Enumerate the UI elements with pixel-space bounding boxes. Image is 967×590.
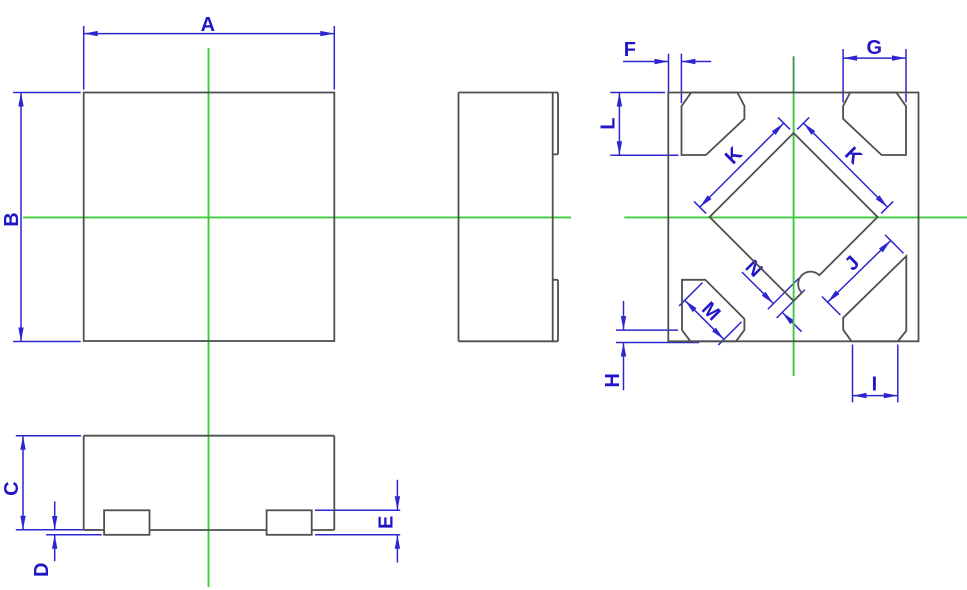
front view bottom edge segment middle (150, 529, 267, 531)
dimension K-right tick lower (881, 201, 893, 213)
dimension I extension line left (852, 345, 854, 403)
front view right edge (333, 436, 335, 530)
dimension L extension line bottom (610, 154, 678, 156)
side view body right edge (552, 93, 554, 342)
dimension E extension line bottom (315, 534, 400, 536)
front view bottom edge segment right (312, 529, 335, 531)
dimension I line (853, 395, 898, 397)
centerline horizontal left views (23, 216, 571, 218)
dimension L line (618, 93, 620, 156)
front view bottom edge segment left (84, 529, 104, 531)
dimension E line lower (396, 535, 398, 563)
svg-text:H: H (602, 373, 624, 387)
bottom view package outline (668, 93, 918, 342)
dimension B line (20, 93, 22, 342)
svg-text:G: G (867, 37, 883, 59)
front view left edge (83, 436, 85, 530)
bottom view top-left pad (682, 93, 745, 156)
crystal blank diamond with notch (710, 133, 878, 301)
dimension B extension line bottom (13, 341, 81, 343)
centerline vertical right view upper segment (793, 56, 795, 92)
svg-text:F: F (624, 39, 636, 61)
svg-text:C: C (1, 481, 23, 495)
dimension M tick upper (679, 283, 702, 306)
dimension K-left line (700, 123, 784, 207)
dimension H extension line bottom (616, 342, 699, 344)
dimension D extension line (46, 534, 102, 536)
svg-text:L: L (597, 118, 619, 130)
side view body bottom edge (459, 340, 559, 342)
dimension F line right (681, 61, 711, 63)
side view body left edge (458, 93, 460, 342)
svg-text:I: I (872, 374, 878, 396)
dimension A extension line right (333, 26, 335, 90)
dimension K-right line (804, 123, 888, 207)
dimension N line lower (782, 312, 801, 331)
side view top castellation outer edge (557, 93, 559, 155)
dimension C line (22, 436, 24, 530)
bottom view bottom-right J pad (843, 256, 906, 341)
dimension M line (685, 300, 724, 339)
dimension J tick upper (885, 235, 903, 253)
side view bottom castellation top tick (553, 279, 558, 281)
svg-text:A: A (201, 14, 215, 36)
dimension D line upper (54, 502, 56, 531)
dimension K-left tick lower (694, 201, 706, 213)
dimension A line (84, 33, 335, 35)
dimension G extension line left (842, 49, 844, 102)
dimension E line upper (396, 480, 398, 511)
dimension C extension line top (16, 435, 81, 437)
bottom view top-right pad (843, 93, 906, 156)
dimension J tick lower (822, 297, 840, 315)
dimension J line (828, 241, 891, 303)
front view right terminal pad (267, 510, 312, 535)
side view bottom castellation outer edge (557, 280, 559, 342)
centerline vertical left views (208, 48, 210, 587)
svg-text:D: D (31, 563, 53, 577)
dimension H line lower (623, 343, 625, 391)
dimension G extension line right (905, 49, 907, 102)
dimension K-right tick upper (797, 117, 809, 129)
side view body top edge (459, 92, 559, 94)
bottom view bottom-left pad (682, 280, 744, 342)
dimension E extension line top (315, 509, 400, 511)
centerline horizontal right view (624, 216, 967, 218)
dimension M tick lower (718, 322, 741, 345)
dimension C extension line bottom (16, 529, 100, 531)
svg-text:B: B (1, 212, 23, 226)
dimension B extension line top (13, 92, 81, 94)
dimension F extension line left (668, 54, 670, 92)
dimension A extension line left (83, 26, 85, 90)
dimension D line lower (54, 535, 56, 562)
dimension N line upper (742, 272, 774, 304)
svg-text:E: E (376, 516, 398, 529)
dimension N tick upper (768, 278, 799, 309)
centerline vertical right view (793, 93, 795, 377)
dimension H extension line top (616, 329, 678, 331)
dimension K-left tick upper (778, 117, 790, 129)
dimension N tick lower (777, 290, 805, 318)
dimension F extension line right (680, 54, 682, 103)
dimension H line upper (623, 301, 625, 330)
front view top edge (84, 435, 335, 437)
dimension I extension line right (897, 345, 899, 403)
dimension F line left (623, 61, 669, 63)
dimension G line (843, 57, 906, 59)
side view top castellation bottom tick (553, 153, 558, 155)
front view left terminal pad (104, 510, 149, 535)
top view package outline (84, 93, 335, 342)
dimension L extension line top (610, 92, 665, 94)
